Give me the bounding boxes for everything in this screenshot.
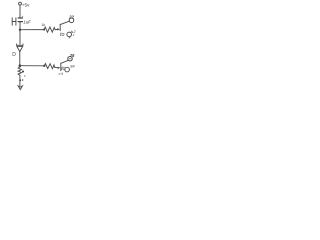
svg-text:28: 28 bbox=[69, 53, 75, 58]
diagonal wire to pin circle (top) bbox=[60, 21, 69, 24]
input bar top block bbox=[59, 24, 61, 30]
wire R2 to arrowhead bbox=[55, 66, 58, 68]
svg-text:22: 22 bbox=[68, 14, 74, 19]
zener triangle bbox=[17, 46, 23, 51]
svg-text:to: to bbox=[60, 32, 65, 38]
node B junction dot bbox=[19, 64, 22, 67]
wire terminal to capacitor bbox=[19, 5, 21, 18]
resistor R3 vertical zigzag bbox=[18, 67, 21, 75]
+5v terminal circle bbox=[19, 2, 22, 5]
input bar bottom block bbox=[60, 63, 62, 70]
speck above right bbox=[24, 75, 25, 76]
tail of lower circle bbox=[68, 37, 71, 39]
H mark left of capacitor bbox=[11, 18, 13, 25]
svg-text:98: 98 bbox=[70, 63, 75, 68]
speck right of wire bbox=[22, 79, 24, 81]
wire capacitor to zener bbox=[19, 22, 21, 45]
junction blob at R2 start bbox=[43, 65, 45, 67]
bottom open arrow connector bbox=[18, 86, 22, 90]
capacitor C1 bottom plate bbox=[18, 21, 22, 23]
pin circle lower (bottom block) bbox=[65, 67, 70, 72]
svg-text:+5v: +5v bbox=[22, 2, 30, 7]
svg-text:1uF: 1uF bbox=[23, 20, 31, 25]
svg-text:+: + bbox=[21, 15, 23, 19]
pin circle top bbox=[69, 18, 74, 23]
resistor R2 zigzag bbox=[44, 64, 55, 69]
wire node B to resistor R2 bbox=[20, 65, 44, 67]
diagonal wire to pin circle (bottom block) bbox=[61, 60, 68, 63]
svg-text:1k: 1k bbox=[41, 23, 45, 27]
inner speck of that circle bbox=[69, 58, 70, 59]
arrowhead into top block bbox=[57, 28, 60, 30]
svg-text:D: D bbox=[12, 52, 16, 58]
wire zener to node B bbox=[19, 52, 21, 67]
svg-text:n 9: n 9 bbox=[59, 72, 64, 76]
wire R3 down to connector bbox=[19, 75, 21, 86]
wire R1 to arrowhead bbox=[55, 28, 57, 30]
node A junction dot bbox=[19, 29, 21, 31]
arrowhead into bottom block bbox=[58, 67, 61, 69]
resistor R1 zigzag bbox=[44, 27, 55, 32]
svg-text:2: 2 bbox=[72, 33, 75, 37]
zener diode bar with wings bbox=[17, 44, 23, 45]
junction blob at R1 start bbox=[43, 29, 45, 31]
capacitor C1 top plate bbox=[18, 17, 22, 19]
blob on wire bbox=[19, 79, 21, 81]
dot right of R3 bbox=[22, 71, 24, 73]
pin circle lower (top block) bbox=[67, 32, 72, 37]
pin circle top of bottom block bbox=[68, 57, 72, 61]
wire node A to resistor R1 bbox=[20, 29, 44, 31]
